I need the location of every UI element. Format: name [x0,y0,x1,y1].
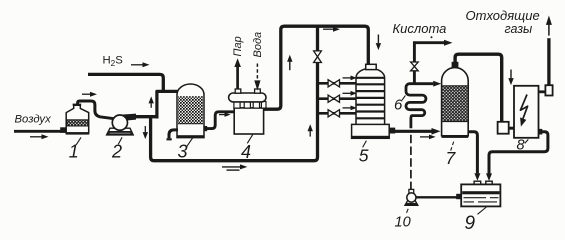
svg-text:6: 6 [394,97,403,114]
svg-text:4: 4 [241,142,251,162]
svg-text:10: 10 [395,215,411,231]
svg-text:5: 5 [359,146,369,166]
svg-text:Пар: Пар [232,36,244,56]
svg-text:8: 8 [517,138,525,154]
svg-text:газы: газы [505,22,533,36]
svg-text:Вода: Вода [252,32,264,58]
svg-text:7: 7 [446,148,457,168]
svg-text:3: 3 [178,142,188,162]
svg-text:Кислота: Кислота [393,21,447,36]
svg-text:2: 2 [111,142,122,162]
svg-text:Отходящие: Отходящие [466,8,540,23]
svg-text:Воздух: Воздух [15,113,52,125]
svg-text:1: 1 [69,142,79,162]
svg-text:9: 9 [465,213,476,231]
